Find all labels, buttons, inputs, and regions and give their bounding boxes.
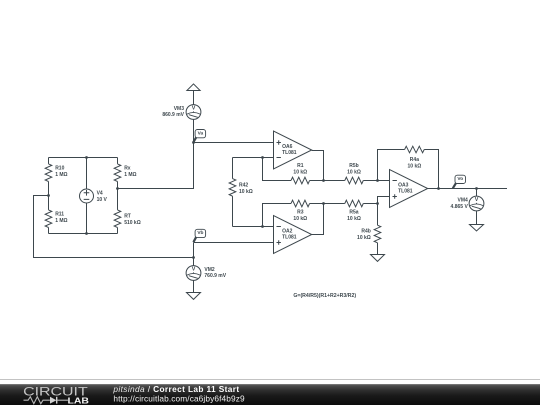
wire left tap to Vb rail	[34, 196, 194, 258]
footer bar	[0, 384, 540, 405]
label RT value	[124, 213, 141, 226]
wire Va to VM3	[193, 119, 195, 142]
wire node Va to OA6	[194, 142, 274, 144]
wire minus node up to R3	[263, 204, 292, 227]
junction VM2 tap	[192, 256, 195, 259]
label Rx value	[124, 165, 136, 178]
wire R1 to R5b	[310, 180, 345, 182]
junction OA6 minus node	[261, 156, 264, 159]
label VM2 value	[204, 267, 226, 279]
wire feedback down to minus	[378, 150, 405, 181]
node flag Vb	[193, 229, 205, 242]
wire OA6 minus node	[233, 157, 274, 159]
wire OA2 output	[312, 204, 324, 235]
voltage source V4	[80, 158, 94, 234]
junction bridge bottom	[85, 232, 88, 235]
wire OA2 minus node	[233, 226, 274, 228]
label R5b value	[347, 163, 361, 175]
junction feedback tap	[437, 187, 440, 190]
label gain formula	[293, 293, 356, 299]
junction OA3 minus node	[376, 179, 379, 182]
resistor R11	[45, 196, 52, 234]
op-amp OA3	[390, 170, 428, 208]
resistor R3	[291, 200, 310, 207]
resistor R4a	[405, 146, 425, 153]
resistor R42	[229, 158, 236, 227]
junction bridge left tap	[47, 194, 50, 197]
op-amp OA2	[274, 216, 312, 254]
junction OA2 output node	[322, 202, 325, 205]
ground below VM2	[187, 293, 201, 300]
wire minus node down to R1	[263, 158, 292, 181]
wire OA3 output	[428, 188, 507, 190]
resistor R1	[291, 177, 310, 184]
label R1 value	[293, 163, 307, 175]
resistor R5b	[345, 177, 363, 184]
node flag Vo	[453, 175, 466, 188]
junction OA3 plus node	[376, 202, 379, 205]
node flag Va	[193, 130, 205, 143]
op-amp OA6	[274, 131, 312, 169]
wire R5b to OA3 minus	[363, 180, 389, 182]
CircuitLab logo resistor-diode glyph	[24, 397, 68, 404]
wire R3 to R5a	[310, 203, 345, 205]
wire bridge bottom rail	[49, 233, 118, 235]
voltmeter VM3	[186, 105, 201, 120]
ground below R4b	[371, 255, 385, 262]
voltmeter VM2	[186, 266, 201, 281]
label V4 value	[97, 190, 108, 202]
wire right tap to node Va	[118, 143, 194, 189]
wire feedback up	[424, 150, 438, 189]
wire jog to OA3 plus	[378, 197, 390, 204]
junction VM4 tap	[475, 187, 478, 190]
junction bridge top	[85, 156, 88, 159]
ground above VM3	[187, 84, 200, 91]
label R4b value	[357, 229, 371, 241]
separator line above footer	[0, 379, 540, 380]
wire node Vb to OA2	[194, 242, 274, 244]
junction bridge right tap	[116, 187, 119, 190]
svg-text:http://circuitlab.com/ca6jby6f: http://circuitlab.com/ca6jby6f4b9z9	[113, 393, 245, 403]
wire to VM4	[476, 189, 478, 197]
label R3 value	[293, 210, 307, 222]
resistor Rx	[114, 158, 121, 189]
wire Vb down to rail	[193, 243, 195, 258]
ground below VM4	[470, 225, 484, 232]
label VM4 value	[451, 197, 469, 209]
wire R5a to jog	[363, 203, 377, 205]
wire VM4 to ground	[476, 211, 478, 225]
label R11 value	[55, 212, 67, 225]
label R4a value	[408, 157, 422, 169]
wire OA6 output	[312, 151, 324, 181]
resistor R5a	[345, 200, 363, 207]
resistor RT	[114, 189, 121, 234]
junction OA6 output node	[322, 179, 325, 182]
wire rail to VM2	[193, 258, 195, 266]
junction OA2 minus node	[261, 225, 264, 228]
label R5a value	[347, 210, 361, 222]
wire VM2 to ground	[193, 280, 195, 292]
resistor R4b	[374, 204, 381, 255]
label R10 value	[55, 165, 67, 178]
junction node Va	[192, 141, 195, 144]
label R42 value	[239, 182, 253, 195]
wire bridge top rail	[49, 157, 118, 159]
svg-text:LAB: LAB	[68, 396, 90, 405]
voltmeter VM4	[469, 196, 484, 211]
label VM3 value	[162, 106, 184, 118]
wire VM3 to ground	[193, 91, 195, 105]
resistor R10	[45, 158, 52, 196]
